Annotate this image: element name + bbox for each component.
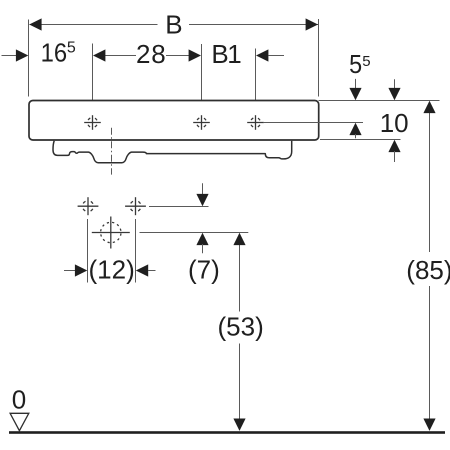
dimension (12) left outside arrow with tail	[64, 270, 77, 272]
dimension (85) line lower part	[429, 286, 431, 419]
dimension B1: outside arrow with tail	[256, 49, 268, 61]
mounting hole cross left	[78, 197, 99, 215]
mounting hole cross right	[125, 197, 146, 215]
tap hole cross 1	[84, 115, 101, 130]
dimension line B	[30, 24, 158, 26]
dimension (53) line lower part	[239, 344, 241, 420]
arrowhead B right	[306, 18, 318, 30]
svg-text:5: 5	[362, 53, 370, 70]
washbasin underside with siphon cover	[53, 141, 292, 163]
dimension (53) bottom arrow (down)	[233, 419, 245, 431]
svg-text:28: 28	[136, 39, 167, 69]
dimension (85) bottom arrow (down)	[423, 419, 435, 431]
dimension 10 upper arrow (down)	[394, 79, 396, 89]
svg-text:10: 10	[380, 108, 409, 138]
level line: drain extended right	[140, 232, 249, 234]
svg-text:(53): (53)	[218, 312, 264, 342]
dimension (7) lower arrow (up)	[196, 233, 208, 245]
svg-text:(7): (7)	[188, 255, 220, 285]
extension line: basin right edge	[318, 19, 320, 97]
drain circle (dashed) with crosshair	[92, 217, 130, 249]
level line: basin top extended right	[319, 100, 440, 102]
dimension (53) line upper part	[239, 244, 241, 312]
level line: basin bottom extended right	[320, 139, 401, 141]
dimension (85) line upper part	[429, 112, 431, 252]
svg-text:B1: B1	[211, 39, 241, 69]
svg-text:B: B	[165, 9, 182, 39]
dimension 10 lower arrow (up)	[388, 140, 400, 152]
arrowhead B left	[29, 18, 41, 30]
extension line: basin left edge	[28, 20, 30, 97]
dimension (85) top arrow (up)	[423, 101, 435, 113]
svg-text:0: 0	[12, 385, 26, 415]
dimension (7) upper arrow (down)	[202, 183, 204, 195]
dimension line 28	[105, 55, 136, 57]
level line: tap holes extended right	[264, 122, 363, 124]
dimension 5^5 upper arrow (down)	[355, 79, 357, 89]
extension line below mounting hole left	[87, 219, 89, 283]
washbasin body outline	[29, 101, 319, 141]
svg-text:5: 5	[67, 40, 76, 57]
floor line	[9, 431, 445, 434]
datum triangle	[10, 413, 29, 430]
centerline through siphon (dash-dot)	[111, 128, 113, 175]
dimension 5^5 lower arrow (up)	[349, 123, 361, 135]
tap hole cross 2	[193, 115, 210, 130]
arrowhead 28 right	[189, 49, 201, 61]
arrowhead 28 left	[93, 49, 105, 61]
tap hole cross 3	[247, 115, 264, 130]
extension line below mounting hole right	[135, 219, 137, 283]
svg-text:16: 16	[41, 38, 68, 68]
svg-text:(85): (85)	[406, 255, 450, 285]
dimension (12) right outside arrow with tail	[136, 264, 148, 276]
svg-text:(12): (12)	[89, 255, 135, 285]
svg-text:5: 5	[349, 49, 362, 79]
extension line: tap hole 3	[255, 49, 257, 112]
dimension 16^5: outside arrow with tail at basin left	[2, 55, 17, 57]
level line: mounting holes extended right	[149, 206, 209, 208]
extension line: tap hole 1	[92, 44, 94, 112]
extension line: tap hole 2	[201, 44, 203, 112]
dimension (53) top arrow (up)	[233, 233, 245, 245]
